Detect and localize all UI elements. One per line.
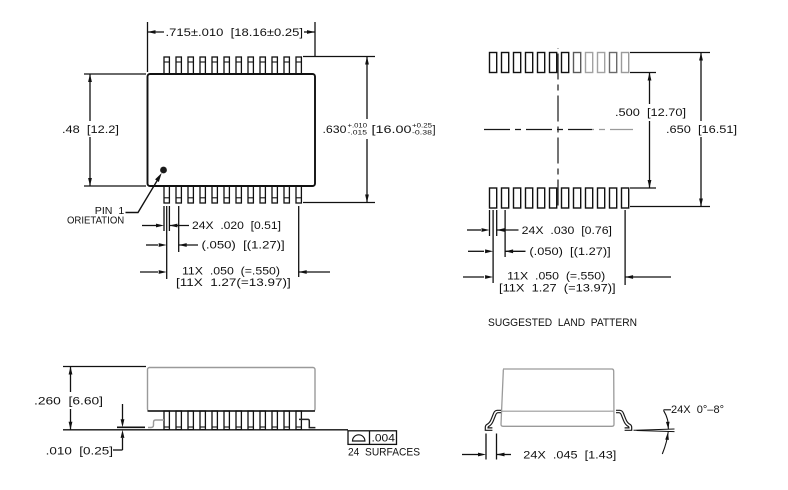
dimension .260: dim line + arrows: [70, 367, 72, 393]
pin 1 orientation dot: [160, 167, 167, 174]
svg-text:+.010: +.010: [348, 123, 368, 130]
dim row (.050) [(1.27)] (land): [468, 250, 484, 252]
svg-text:ORIETATION: ORIETATION: [67, 215, 124, 227]
top pin row (12 pins): [164, 57, 169, 74]
svg-text:.500 [12.70]: .500 [12.70]: [615, 107, 686, 119]
svg-text:24X .020 [0.51]: 24X .020 [0.51]: [192, 220, 281, 232]
svg-text:.260 [6.60]: .260 [6.60]: [34, 395, 103, 407]
dimension .715 top: extension lines: [147, 22, 149, 72]
dim row 24X .030 [0.76]: [467, 229, 481, 231]
dimension .630: dimension line + arrows: [366, 57, 368, 120]
dimension .045: arrows: [462, 454, 478, 456]
package body (top view): [148, 74, 316, 186]
svg-text:11X .050 (=.550): 11X .050 (=.550): [182, 265, 280, 277]
dimension .48 left: extension lines: [84, 73, 146, 75]
land pattern bottom pad row (12 pads): [490, 188, 497, 208]
svg-text:(.050) [(1.27)]: (.050) [(1.27)]: [529, 246, 610, 258]
pad width extension lines below: [489, 210, 491, 236]
svg-text:[11X 1.27(=13.97)]: [11X 1.27(=13.97)]: [176, 277, 291, 289]
dimension .010: arrows: [122, 404, 124, 420]
angle dimension leader: [664, 409, 672, 411]
svg-text:.715±.010 [18.16±0.25]: .715±.010 [18.16±0.25]: [166, 27, 304, 39]
svg-text:]: ]: [433, 124, 436, 136]
near lead left (profile): [148, 420, 164, 428]
svg-text:(.050) [(1.27)]: (.050) [(1.27)]: [202, 240, 285, 252]
svg-text:24X 0°–8°: 24X 0°–8°: [671, 404, 724, 416]
svg-text:.010 [0.25]: .010 [0.25]: [46, 445, 113, 457]
svg-text:+0.25: +0.25: [412, 123, 433, 130]
svg-text:.650 [16.51]: .650 [16.51]: [666, 124, 737, 136]
vertical centerline: [557, 48, 559, 208]
bottom pin row (12 pins): [164, 186, 169, 203]
svg-text:-.015: -.015: [348, 130, 368, 137]
horizontal centerline (right grey part): [592, 129, 633, 131]
svg-text:24X .045 [1.43]: 24X .045 [1.43]: [523, 450, 616, 462]
dimension .500: extension lines: [630, 72, 656, 74]
dim row 24X .020 [0.51]: [142, 225, 156, 227]
side view body bottom edge: [148, 410, 316, 412]
svg-text:-0.38: -0.38: [412, 130, 433, 137]
right gull-wing lead (mirror): [616, 410, 632, 430]
side view package body: [148, 368, 316, 412]
side view far-side legs (12): [164, 411, 169, 430]
flatness feature control frame: [348, 431, 397, 445]
land pattern top pad row (12 pads): [490, 53, 497, 73]
end view package body: [501, 369, 614, 426]
dimension .010: extension line at lead foot: [117, 426, 145, 428]
seating plane baseline: [63, 429, 348, 431]
svg-text:[11X 1.27 (=13.97)]: [11X 1.27 (=13.97)]: [499, 283, 616, 295]
svg-text:.630: .630: [323, 124, 347, 136]
lead width extension lines below bottom pins: [163, 206, 165, 231]
svg-text:SUGGESTED LAND PATTERN: SUGGESTED LAND PATTERN: [488, 317, 637, 329]
dimension .045: extension lines: [485, 434, 487, 460]
dimension .500: dim line + arrows: [649, 73, 651, 105]
profile-of-surface symbol: [353, 435, 365, 441]
dim row 11X .050 (=.550) (land): [463, 276, 484, 278]
angle dimension arc: [664, 410, 669, 429]
svg-text:.004: .004: [372, 433, 395, 445]
horizontal centerline (left black part): [484, 129, 592, 131]
dimension .650: dim line + arrows: [700, 53, 702, 122]
near lead right (profile): [299, 419, 315, 427]
svg-text:.48 [12.2]: .48 [12.2]: [62, 124, 119, 136]
dimension .48: dimension line + arrows: [89, 74, 91, 121]
dimension .715 top: dimension line + arrows: [148, 31, 165, 33]
dimension .260: top extension line: [63, 366, 146, 368]
dimension .630 right: extension lines: [303, 56, 375, 58]
dim row (.050) [(1.27)]: [146, 244, 158, 246]
svg-text:24 SURFACES: 24 SURFACES: [348, 446, 420, 458]
end view parting line: [501, 410, 614, 412]
pin 1 leader line: [126, 177, 160, 213]
angle wedge reference lines from right foot: [634, 429, 675, 430]
svg-text:24X .030 [0.76]: 24X .030 [0.76]: [522, 225, 612, 237]
dim row 11X .050 (=.550): [140, 271, 158, 273]
dimension .650: extension lines: [630, 52, 710, 54]
svg-text:[16.00: [16.00: [372, 124, 412, 136]
svg-text:11X .050 (=.550): 11X .050 (=.550): [507, 271, 605, 283]
left gull-wing lead: [485, 410, 501, 430]
